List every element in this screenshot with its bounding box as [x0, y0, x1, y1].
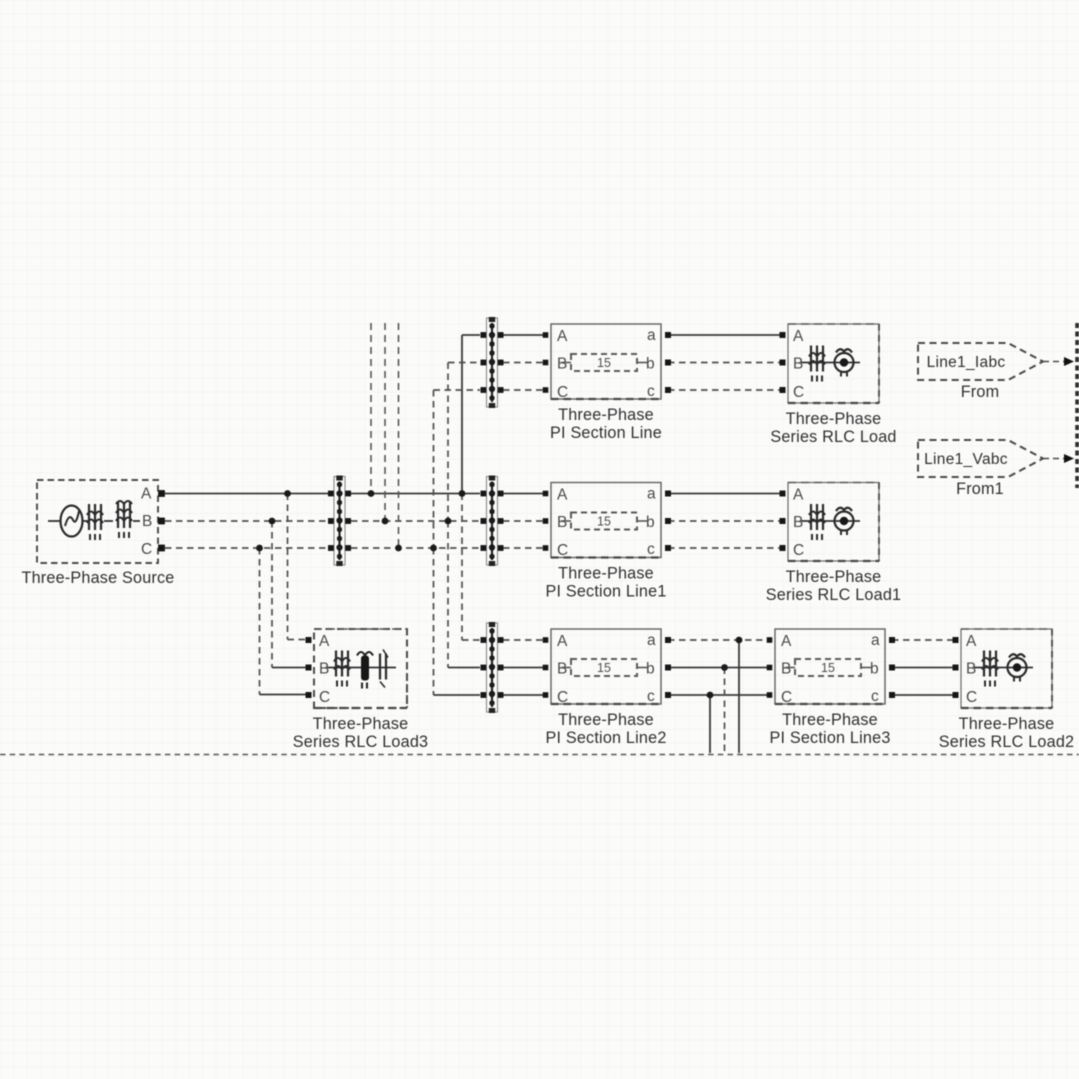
junction A dangling: [368, 490, 375, 497]
junction B dangling: [382, 518, 389, 525]
svg-text:Series RLC Load3: Series RLC Load3: [293, 733, 428, 751]
wire phase A down to Load3: [288, 494, 309, 640]
input ports A B C of Three-Phase PI Section Line2: [543, 637, 549, 698]
block Three-Phase PI Section Line: [551, 324, 661, 401]
svg-text:15: 15: [597, 356, 611, 370]
svg-text:From: From: [961, 383, 1000, 401]
svg-text:A: A: [793, 487, 804, 504]
input ports A B C of Three-Phase Series RLC Load2: [953, 637, 959, 698]
wire phase C main bus (mid column to line1 column): [351, 547, 546, 549]
svg-text:PI Section Line1: PI Section Line1: [545, 583, 666, 601]
svg-text:B: B: [781, 661, 791, 678]
wire PI Section Line1 outputs to Series RLC Load1: [668, 494, 781, 549]
svg-text:15: 15: [597, 661, 611, 675]
measurement bus column line2: [481, 622, 504, 713]
label Three-Phase Series RLC Load3: [293, 715, 428, 751]
svg-text:A: A: [793, 328, 804, 345]
junction bottom b: [721, 664, 728, 671]
junction C dangling: [395, 545, 402, 552]
svg-text:Three-Phase: Three-Phase: [786, 410, 882, 428]
svg-text:Three-Phase: Three-Phase: [782, 711, 878, 729]
input ports A B C of Three-Phase Series RLC Load: [780, 332, 786, 393]
svg-text:PI Section Line3: PI Section Line3: [769, 729, 890, 747]
svg-text:a: a: [647, 327, 656, 344]
svg-text:b: b: [646, 356, 655, 373]
svg-text:Three-Phase: Three-Phase: [313, 715, 409, 733]
svg-text:15: 15: [821, 661, 835, 675]
svg-text:B: B: [557, 356, 567, 373]
wire top column to PI Section Line inputs: [503, 335, 546, 390]
svg-text:a: a: [647, 632, 656, 649]
block Three-Phase Source: [37, 480, 158, 563]
svg-text:Three-Phase: Three-Phase: [959, 715, 1055, 733]
label Three-Phase PI Section Line3: [769, 711, 890, 747]
svg-text:b: b: [646, 661, 655, 678]
wire phase A main bus (source to mid measurement column): [165, 493, 328, 495]
measurement bus column top: [481, 317, 504, 408]
measurement bus column mid: [328, 476, 351, 567]
svg-text:15: 15: [597, 515, 611, 529]
svg-text:C: C: [557, 689, 568, 706]
wire phase B down to Load3: [272, 521, 308, 668]
block Three-Phase PI Section Line1: [551, 483, 661, 560]
svg-text:A: A: [557, 328, 568, 345]
long dashed horizontal annotation line: [0, 754, 1079, 756]
svg-text:c: c: [647, 688, 655, 705]
wire From1 to scope: [1043, 454, 1074, 463]
label Three-Phase PI Section Line2: [545, 711, 666, 747]
svg-text:Line1_Iabc: Line1_Iabc: [927, 354, 1006, 371]
label Three-Phase Source: [22, 569, 175, 587]
label From1: [956, 480, 1004, 498]
svg-text:Series RLC Load2: Series RLC Load2: [939, 733, 1074, 751]
label Three-Phase Series RLC Load: [770, 410, 896, 446]
svg-text:B: B: [557, 661, 567, 678]
label Three-Phase PI Section Line1: [545, 565, 666, 601]
wire phase B main bus (source to mid measurement column): [165, 520, 328, 522]
block Three-Phase Series RLC Load: [788, 324, 879, 403]
svg-text:A: A: [557, 633, 568, 650]
label From: [961, 383, 1000, 401]
port B of Three-Phase Source: [158, 518, 165, 525]
scope block edge (cut off): [1075, 323, 1079, 488]
block Three-Phase Series RLC Load1: [788, 483, 879, 562]
svg-text:Three-Phase: Three-Phase: [558, 711, 654, 729]
block Three-Phase PI Section Line3: [775, 629, 885, 706]
svg-text:C: C: [319, 689, 330, 706]
svg-text:Three-Phase: Three-Phase: [558, 406, 654, 424]
svg-text:A: A: [966, 633, 977, 650]
svg-text:C: C: [793, 542, 804, 559]
svg-text:C: C: [557, 384, 568, 401]
wire phase C main bus (source to mid measurement column): [165, 547, 328, 549]
label Three-Phase PI Section Line: [550, 406, 662, 442]
output ports a b c of Three-Phase PI Section Line2: [665, 637, 671, 698]
junction B link: [445, 518, 452, 525]
svg-text:Series RLC Load: Series RLC Load: [770, 428, 896, 446]
vertical wire phase C to top and bottom branches: [434, 390, 481, 695]
input ports A B C of Three-Phase PI Section Line: [543, 332, 549, 393]
svg-text:B: B: [557, 514, 567, 531]
svg-text:B: B: [793, 514, 803, 531]
svg-text:c: c: [647, 541, 655, 558]
wire phase B main bus (mid column to line1 column): [351, 520, 546, 522]
svg-text:Series RLC Load1: Series RLC Load1: [766, 586, 901, 604]
svg-text:Three-Phase Source: Three-Phase Source: [22, 569, 175, 587]
junction A link: [459, 490, 466, 497]
stub wires down from bottom branch nodes: [710, 640, 739, 753]
svg-text:B: B: [966, 661, 976, 678]
input ports A B C of Three-Phase Series RLC Load3: [306, 637, 312, 698]
goto-from tag From1: [918, 440, 1043, 477]
svg-text:PI Section Line2: PI Section Line2: [545, 729, 666, 747]
measurement bus column line1: [481, 476, 504, 567]
label Three-Phase Series RLC Load2: [939, 715, 1074, 751]
dangling vertical wire from node C up: [398, 323, 400, 548]
goto-from tag From: [918, 343, 1043, 380]
input ports A B C of Three-Phase PI Section Line1: [543, 491, 549, 551]
svg-text:A: A: [319, 633, 330, 650]
svg-text:B: B: [319, 661, 329, 678]
svg-text:A: A: [557, 487, 568, 504]
vertical wire phase B to top and bottom branches: [448, 363, 480, 668]
wire PI Section Line2 outputs to PI Section Line3: [668, 640, 770, 695]
output ports a b c of Three-Phase PI Section Line1: [665, 491, 671, 552]
svg-text:C: C: [141, 541, 152, 558]
wire phase A main bus (mid column to line1 column): [351, 493, 546, 495]
input ports A B C of Three-Phase Series RLC Load1: [780, 491, 786, 552]
port A of Three-Phase Source: [158, 490, 165, 497]
vertical wire phase A to top and bottom branches: [462, 335, 480, 640]
label Three-Phase Series RLC Load1: [766, 568, 901, 604]
output ports a b c of Three-Phase PI Section Line: [665, 332, 671, 393]
svg-text:b: b: [646, 514, 655, 531]
wire PI Section Line outputs to Series RLC Load: [668, 335, 781, 390]
svg-text:C: C: [781, 689, 792, 706]
output ports a b c of Three-Phase PI Section Line3: [889, 637, 895, 698]
svg-text:a: a: [871, 632, 880, 649]
dangling vertical wire from node A up: [370, 323, 372, 494]
svg-text:Line1_Vabc: Line1_Vabc: [924, 451, 1008, 468]
svg-text:a: a: [647, 486, 656, 503]
svg-text:A: A: [781, 633, 792, 650]
svg-text:C: C: [557, 542, 568, 559]
wire bottom column to PI Section Line2 inputs: [503, 640, 546, 695]
junction B to Load3: [269, 518, 276, 525]
junction C to Load3: [256, 545, 263, 552]
svg-text:Three-Phase: Three-Phase: [558, 565, 654, 583]
svg-text:c: c: [647, 383, 655, 400]
block Three-Phase Series RLC Load3: [314, 629, 407, 708]
junction bottom a: [736, 637, 743, 644]
svg-text:PI Section Line: PI Section Line: [550, 424, 662, 442]
dangling vertical wire from node B up: [384, 323, 386, 521]
svg-text:From1: From1: [956, 480, 1004, 498]
svg-text:A: A: [141, 486, 152, 503]
block Three-Phase Series RLC Load2: [961, 629, 1052, 708]
svg-text:B: B: [142, 513, 152, 530]
svg-text:b: b: [870, 661, 879, 678]
junction A to Load3: [284, 490, 291, 497]
svg-text:B: B: [793, 356, 803, 373]
junction bottom c: [707, 692, 714, 699]
port C of Three-Phase Source: [158, 545, 165, 552]
wire phase C down to Load3: [260, 548, 309, 695]
svg-text:C: C: [793, 384, 804, 401]
svg-text:C: C: [966, 689, 977, 706]
input ports A B C of Three-Phase PI Section Line3: [767, 637, 773, 698]
svg-text:c: c: [871, 688, 879, 705]
wire PI Section Line3 outputs to Series RLC Load2: [892, 640, 955, 695]
block Three-Phase PI Section Line2: [551, 629, 661, 706]
svg-text:Three-Phase: Three-Phase: [786, 568, 882, 586]
junction C link: [430, 545, 437, 552]
wire From to scope: [1043, 357, 1074, 366]
